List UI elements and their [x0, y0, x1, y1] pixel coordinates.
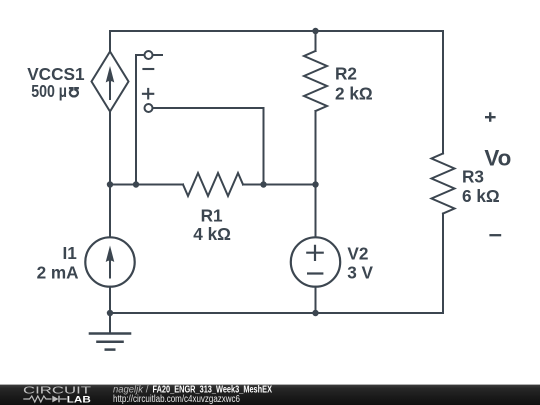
- svg-text:R2: R2: [335, 63, 357, 83]
- VCCS1 control plus sign: [142, 88, 154, 100]
- wire I1 bottom lead: [109, 287, 111, 313]
- wire VCCS1 bottom lead: [109, 112, 111, 185]
- svg-text:LAB: LAB: [67, 395, 91, 405]
- svg-text:R3: R3: [462, 166, 484, 186]
- source I1 circle: [85, 237, 134, 286]
- VCCS1 control terminal circles: [145, 51, 153, 112]
- node control plus: [260, 181, 266, 187]
- wire I1 top lead: [109, 185, 111, 238]
- wire top rail: [110, 30, 443, 32]
- wire VCCS1 top lead: [109, 31, 111, 52]
- I1 arrowhead: [106, 246, 115, 263]
- wire V2 top lead: [315, 185, 317, 238]
- resistor R1: [183, 173, 243, 196]
- resistor R3: [432, 154, 455, 214]
- terminal circle plus: [145, 104, 153, 112]
- svg-text:I1: I1: [62, 243, 77, 263]
- node top R2: [312, 28, 318, 34]
- svg-text:Vo: Vo: [484, 146, 511, 171]
- source V2 circle: [291, 237, 340, 286]
- resistor R2: [304, 51, 327, 111]
- VCCS1 control minus sign: [142, 68, 154, 70]
- svg-text:V2: V2: [347, 243, 368, 263]
- terminal circle minus: [145, 51, 153, 59]
- wire right rail lower (R3 to bottom): [442, 214, 444, 314]
- label Vo plus sign: [485, 112, 496, 121]
- footer logo squiggle wire and zigzag: [23, 396, 66, 403]
- wire middle rail right of R1: [243, 184, 316, 186]
- wire VCCS1 control plus lead: [149, 108, 264, 185]
- svg-text:4 kΩ: 4 kΩ: [193, 224, 231, 244]
- svg-text:http://circuitlab.com/c4xuvzga: http://circuitlab.com/c4xuvzgazxwc6: [113, 394, 240, 405]
- svg-text:500 µ: 500 µ: [31, 81, 67, 101]
- node middle left: [107, 181, 113, 187]
- svg-text:R1: R1: [201, 205, 223, 225]
- wire ground stem: [109, 313, 111, 334]
- node bottom V2: [312, 310, 318, 316]
- footer logo diode triangle: [52, 396, 58, 403]
- wire VCCS1 control minus lead: [136, 55, 162, 185]
- wire bottom rail: [110, 312, 443, 314]
- wire R2 bottom lead: [315, 111, 317, 185]
- svg-text:3 V: 3 V: [347, 263, 373, 283]
- V2 plus sign: [306, 245, 324, 261]
- footer bar: [0, 385, 540, 405]
- node middle right: [312, 181, 318, 187]
- wire right rail upper (to R3): [442, 31, 444, 154]
- svg-text:6 kΩ: 6 kΩ: [462, 186, 500, 206]
- VCCS1 arrowhead: [106, 66, 115, 83]
- V2 minus sign: [307, 272, 323, 274]
- ground symbol: [89, 334, 132, 350]
- node control minus: [133, 181, 139, 187]
- junction node dots: [107, 28, 319, 316]
- label Vo minus sign: [489, 234, 501, 236]
- wire R2 top lead: [315, 31, 317, 51]
- wire middle rail left of R1: [110, 184, 183, 186]
- VCCS1 arrow: [109, 77, 111, 99]
- node bottom left: [107, 310, 113, 316]
- label mho symbol (inverted omega): [69, 88, 79, 96]
- op VCCS1 diamond body: [92, 52, 129, 112]
- svg-text:2 kΩ: 2 kΩ: [335, 83, 373, 103]
- svg-text:2 mA: 2 mA: [37, 263, 79, 283]
- wire V2 bottom lead: [315, 287, 317, 313]
- I1 arrow shaft: [109, 256, 111, 278]
